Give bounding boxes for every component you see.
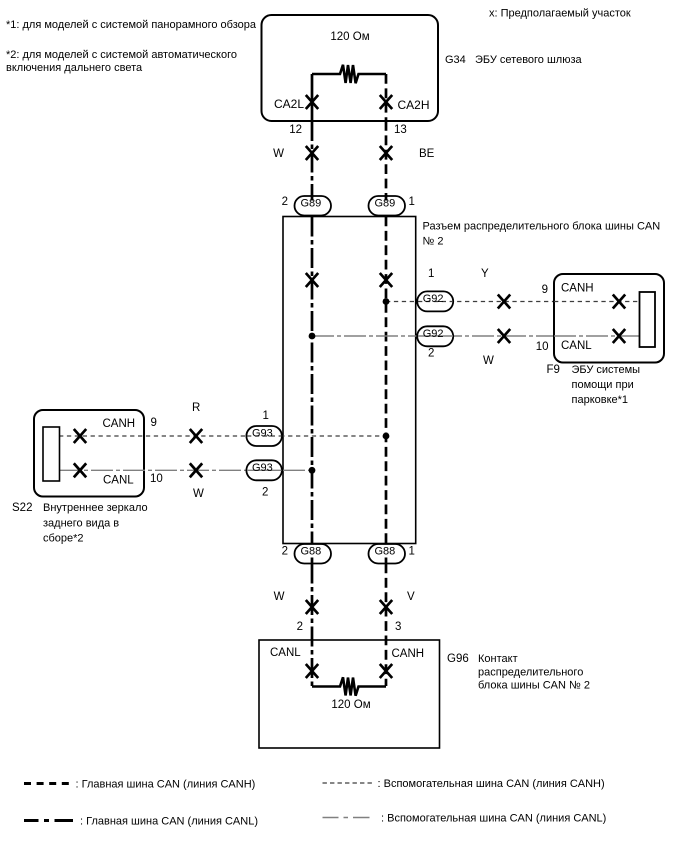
junction dot CANH/G92: [383, 298, 390, 305]
wire stub out of G88 pin 2: [311, 558, 314, 565]
main bus CANH vertical (dashed): [385, 217, 388, 544]
x mark on BE wire: [380, 146, 392, 160]
aux CANL inside F9: [554, 335, 640, 337]
svg-text:парковке*1: парковке*1: [572, 394, 629, 406]
svg-text:1: 1: [263, 410, 269, 422]
svg-text:F9: F9: [547, 364, 560, 376]
x mark W wire (G88): [306, 600, 318, 614]
svg-text:2: 2: [428, 348, 434, 360]
wire through G93 pin 1: [247, 435, 282, 437]
x mark CA2H: [380, 95, 392, 109]
svg-text:CANL: CANL: [561, 340, 592, 352]
svg-text:S22: S22: [12, 502, 32, 514]
x mark CANL (G96): [306, 664, 318, 678]
svg-text:2: 2: [297, 621, 303, 633]
svg-text:2: 2: [262, 487, 268, 499]
connector G92 pin 2: [417, 326, 453, 346]
svg-text:: Вспомогательная шина CAN (ли: : Вспомогательная шина CAN (линия CANH): [378, 778, 605, 790]
aux wire G93 CANH (thin dashed): [59, 435, 386, 437]
svg-text:CANH: CANH: [392, 648, 425, 660]
wire through G92 pin 2: [418, 335, 453, 337]
svg-text:1: 1: [409, 546, 415, 558]
connector G93 pin 2: [246, 460, 282, 480]
svg-text:: Главная шина CAN (линия CANL: : Главная шина CAN (линия CANL): [80, 816, 258, 828]
svg-text:120 Ом: 120 Ом: [331, 699, 370, 711]
x mark inside F9 bottom: [613, 329, 625, 343]
svg-text:Внутреннее зеркало: Внутреннее зеркало: [43, 502, 148, 514]
junction dot CANL/G92: [309, 333, 316, 340]
wire CA2L stub (solid): [311, 74, 314, 121]
aux wire G92 CANL (thin dash-dot gray): [312, 335, 638, 337]
svg-text:W: W: [483, 355, 494, 367]
resistor 120 Ом (G96): [312, 677, 386, 695]
wire G88 to G96 (main CANL dash-dot): [311, 564, 314, 687]
main bus CANL vertical (dash-dot): [311, 217, 314, 544]
connector G88 pin 1: [369, 544, 406, 564]
x mark inside S22 bottom: [74, 463, 86, 477]
svg-text:9: 9: [542, 284, 548, 296]
svg-text:12: 12: [289, 124, 302, 136]
x mark W wire (G92): [498, 329, 510, 343]
pin strip S22: [43, 427, 60, 481]
svg-text:сборе*2: сборе*2: [43, 533, 84, 545]
wire stub out of G88 pin 1: [385, 558, 388, 565]
resistor 120 Ом (G34): [312, 65, 386, 83]
svg-text:x: Предполагаемый участок: x: Предполагаемый участок: [489, 8, 631, 20]
svg-text:BE: BE: [419, 148, 435, 160]
svg-text:13: 13: [394, 124, 407, 136]
x mark on CANL vertical: [306, 273, 318, 287]
wire stub into G89 pin 2: [311, 195, 314, 201]
connector G88 pin 2: [295, 544, 332, 564]
svg-text:G93: G93: [252, 462, 273, 474]
legend main CANH: [24, 782, 69, 785]
wire G88 to G96 (main CANH dashed): [385, 564, 388, 687]
svg-text:Контакт: Контакт: [478, 653, 518, 665]
x mark on CANH vertical: [380, 273, 392, 287]
x mark R wire: [190, 429, 202, 443]
svg-text:R: R: [192, 402, 200, 414]
svg-text:распределительного: распределительного: [478, 667, 583, 679]
aux wire G92 CANH (thin dashed): [386, 301, 638, 303]
svg-text:V: V: [407, 591, 415, 603]
svg-text:CA2L: CA2L: [274, 97, 304, 111]
svg-text:: Вспомогательная шина CAN (ли: : Вспомогательная шина CAN (линия CANL): [381, 813, 606, 825]
wire through G93 pin 2: [247, 469, 282, 471]
svg-text:G88: G88: [301, 545, 322, 557]
x mark W wire (G93): [190, 463, 202, 477]
svg-text:CA2H: CA2H: [398, 98, 430, 112]
x mark CA2L: [306, 95, 318, 109]
svg-text:10: 10: [150, 473, 163, 485]
svg-text:G88: G88: [375, 545, 396, 557]
svg-text:№ 2: № 2: [423, 236, 444, 248]
svg-text:G96: G96: [447, 653, 469, 665]
svg-text:Y: Y: [481, 268, 489, 280]
svg-text:3: 3: [395, 621, 401, 633]
x mark Y wire: [498, 295, 510, 309]
legend aux CANL: [323, 817, 370, 819]
svg-text:блока шины CAN № 2: блока шины CAN № 2: [478, 680, 590, 692]
svg-text:G89: G89: [301, 198, 322, 210]
svg-text:G89: G89: [375, 198, 396, 210]
wire through G92 pin 1: [418, 301, 453, 303]
svg-text:ЭБУ системы: ЭБУ системы: [572, 364, 641, 376]
svg-text:W: W: [193, 488, 204, 500]
x mark CANH (G96): [380, 664, 392, 678]
svg-text:G92: G92: [423, 328, 444, 340]
junction dot CANH/G93: [383, 433, 390, 440]
svg-text:2: 2: [282, 196, 288, 208]
svg-text:CANH: CANH: [561, 283, 594, 295]
svg-text:включения дальнего света: включения дальнего света: [6, 62, 143, 74]
svg-text:заднего вида в: заднего вида в: [43, 518, 119, 530]
junction dot CANL/G93: [309, 467, 316, 474]
svg-text:Разъем распределительного блок: Разъем распределительного блока шины CAN: [423, 221, 661, 233]
x mark inside S22 top: [74, 429, 86, 443]
ECU box F9: [554, 274, 664, 363]
svg-text:W: W: [274, 591, 285, 603]
svg-text:10: 10: [536, 341, 549, 353]
connector G93 pin 1: [246, 426, 282, 446]
svg-text:G93: G93: [252, 428, 273, 440]
pin strip F9: [640, 292, 656, 347]
svg-text:: Главная шина CAN (линия CANH: : Главная шина CAN (линия CANH): [76, 779, 256, 791]
svg-text:G92: G92: [423, 293, 444, 305]
svg-text:*2: для моделей с системой авт: *2: для моделей с системой автоматическо…: [6, 49, 237, 61]
svg-text:2: 2: [282, 546, 288, 558]
svg-text:9: 9: [151, 417, 157, 429]
svg-text:120 Ом: 120 Ом: [330, 31, 369, 43]
x mark on W wire: [306, 146, 318, 160]
x mark inside F9 top: [613, 295, 625, 309]
x mark V wire: [380, 600, 392, 614]
terminator box G96: [259, 640, 440, 748]
mirror box S22: [34, 410, 144, 497]
ECU box G34: [262, 15, 439, 121]
junction box CAN No 2: [283, 217, 416, 544]
svg-text:помощи при: помощи при: [572, 379, 634, 391]
svg-text:CANL: CANL: [270, 647, 301, 659]
legend main CANL: [24, 819, 73, 822]
svg-text:CANL: CANL: [103, 475, 134, 487]
svg-text:G34: G34: [445, 54, 466, 66]
connector G92 pin 1: [417, 291, 453, 311]
svg-text:ЭБУ сетевого шлюза: ЭБУ сетевого шлюза: [475, 54, 583, 66]
connector G89 pin 2: [295, 196, 332, 216]
wire CA2H stub (dashed): [385, 74, 388, 121]
svg-text:1: 1: [428, 268, 434, 280]
connector G89 pin 1: [369, 196, 406, 216]
wire G34 pin13 to G89 (main CANH, dashed): [385, 121, 388, 196]
aux wire G93 CANL (thin dash-dot gray): [59, 469, 312, 471]
svg-text:*1: для моделей с системой пан: *1: для моделей с системой панорамного о…: [6, 19, 257, 31]
wire G34 pin12 to G89 (main CANL, dash-dot): [311, 121, 314, 196]
svg-text:1: 1: [409, 196, 415, 208]
wire stub into G89 pin 1: [385, 195, 388, 201]
svg-text:CANH: CANH: [103, 418, 136, 430]
aux CANH inside F9: [554, 301, 640, 303]
legend aux CANH: [323, 782, 373, 784]
svg-text:W: W: [273, 148, 284, 160]
